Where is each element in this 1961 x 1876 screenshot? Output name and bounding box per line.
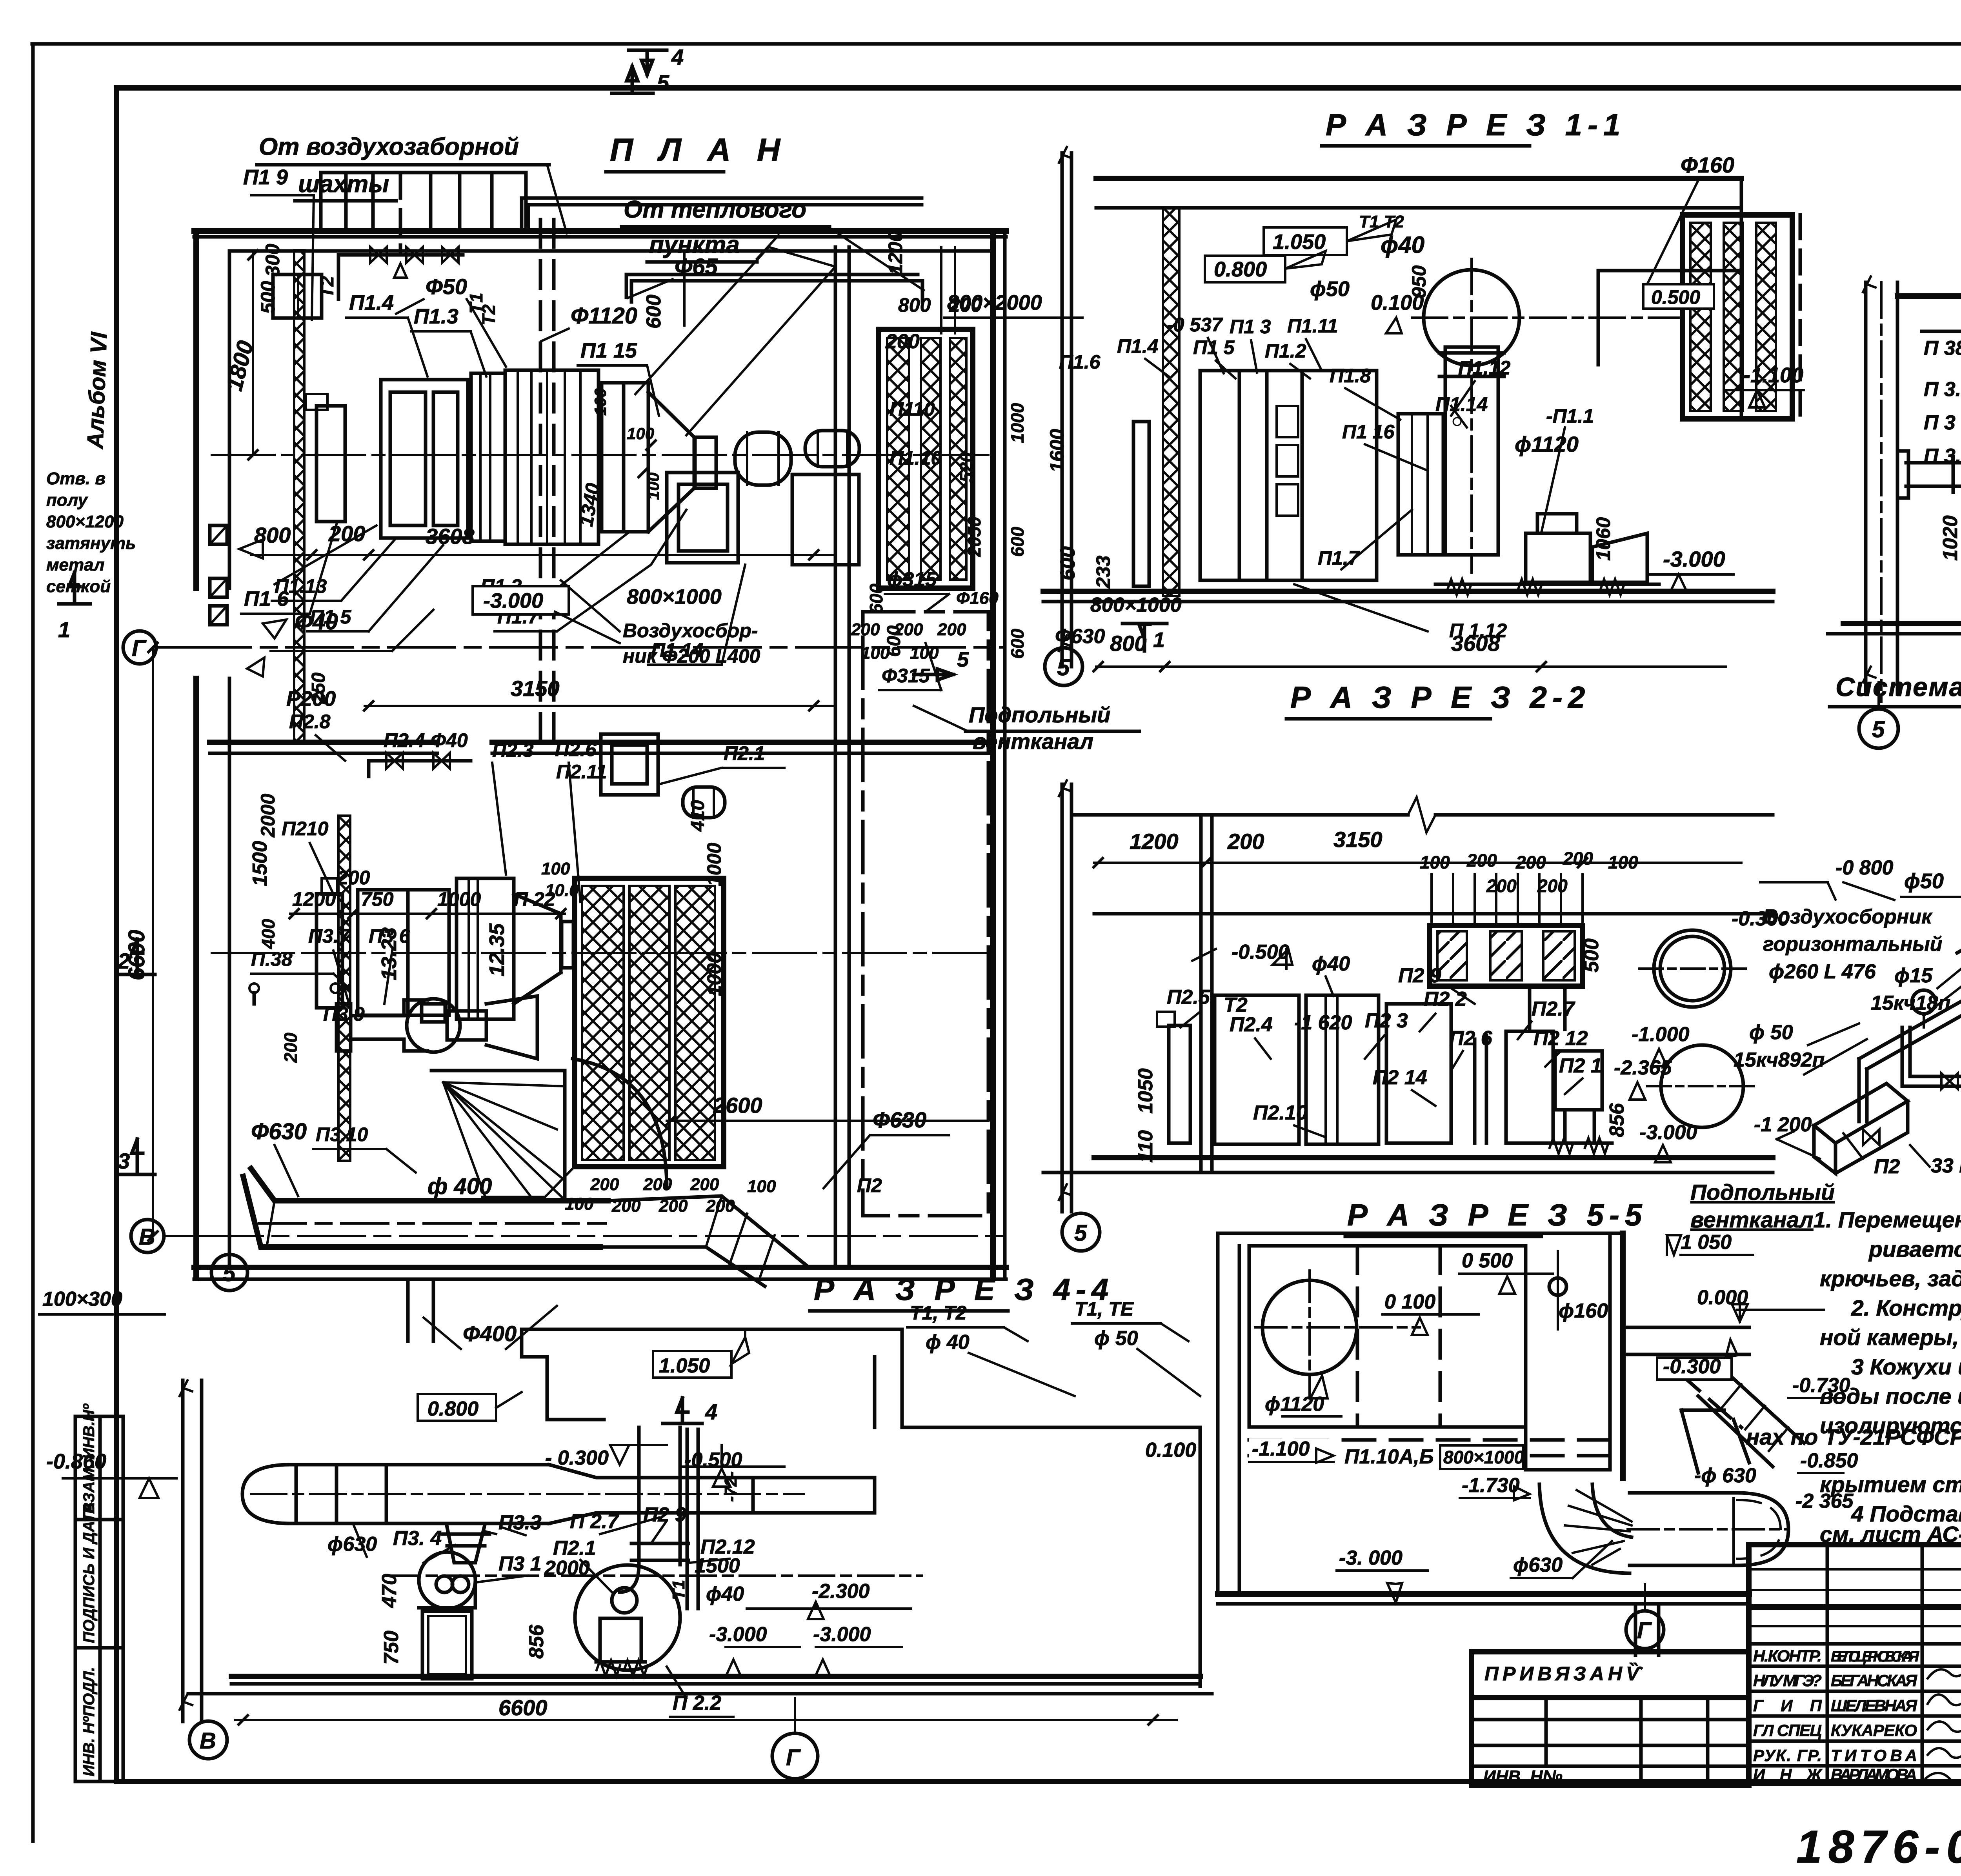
svg-text:5: 5	[957, 648, 969, 671]
svg-text:400: 400	[258, 919, 278, 949]
svg-text:15кч892п: 15кч892п	[1734, 1049, 1825, 1071]
svg-text:ШЕЛЕВНАЯ: ШЕЛЕВНАЯ	[1831, 1696, 1917, 1715]
svg-text:ТИТОВА: ТИТОВА	[1831, 1746, 1917, 1765]
section cut 5 small arrow right	[914, 669, 953, 680]
centerline	[384, 1574, 922, 1577]
intake shaft above plan	[319, 173, 323, 231]
node В (section 4-4)	[189, 1721, 227, 1759]
svg-text:Г: Г	[132, 636, 147, 661]
svg-text:П3 6: П3 6	[369, 925, 411, 947]
svg-text:Подпольный: Подпольный	[1690, 1180, 1835, 1205]
svg-text:-3.000: -3.000	[483, 589, 543, 613]
svg-text:ГИП: ГИП	[1753, 1696, 1822, 1715]
section cut 1 (left)	[59, 573, 90, 604]
svg-text:П1.3: П1.3	[414, 305, 458, 328]
svg-text:233: 233	[1092, 555, 1114, 589]
svg-text:воды после шумоглушителей в: воды после шумоглушителей в пределах вен…	[1820, 1384, 1961, 1409]
fan unit	[1386, 1004, 1451, 1143]
svg-text:П 3.9: П 3.9	[1924, 378, 1961, 401]
fan scroll box	[792, 474, 859, 565]
node 5 (section 3-3)	[1859, 709, 1898, 748]
signature rows	[1753, 1647, 1961, 1784]
svg-text:600: 600	[642, 294, 665, 329]
outer border left	[31, 44, 35, 1841]
inner wall	[1201, 815, 1212, 1172]
svg-text:От воздухозаборной: От воздухозаборной	[259, 133, 519, 160]
svg-text:100: 100	[565, 1194, 594, 1214]
section arrow 1	[1122, 624, 1167, 651]
bottom dims	[1096, 665, 1726, 668]
svg-text:-1 200: -1 200	[1754, 1113, 1812, 1136]
box 2	[1306, 995, 1379, 1144]
svg-text:Г: Г	[786, 1745, 801, 1771]
svg-text:200: 200	[1563, 848, 1593, 869]
svg-text:1000: 1000	[1007, 403, 1028, 443]
svg-text:вентканал1. Перемещение обо: вентканал1. Перемещение оборудования в в…	[1690, 1207, 1961, 1232]
node Г (section 4-4)	[772, 1733, 818, 1779]
svg-text:-0 800: -0 800	[1835, 856, 1894, 879]
svg-text:-1.100: -1.100	[1252, 1438, 1310, 1460]
vent channel dashed	[863, 612, 988, 1216]
centerline upper equipment	[212, 454, 988, 456]
labels	[1924, 256, 1961, 681]
labels	[1657, 1358, 1732, 1380]
svg-text:100: 100	[1608, 852, 1638, 873]
svg-text:П3 9: П3 9	[323, 1003, 365, 1025]
svg-text:ривается переносной лебедкой: ривается переносной лебедкой с блоками п…	[1868, 1237, 1961, 1262]
svg-text:-3.000: -3.000	[813, 1623, 871, 1646]
svg-text:2600: 2600	[713, 1093, 762, 1118]
big header cell rules	[1749, 1604, 1961, 1610]
pedestal	[422, 1611, 472, 1679]
svg-text:нах по ТУ-21РСФСР 80-77 δ=40: нах по ТУ-21РСФСР 80-77 δ=40мм с последу…	[1746, 1425, 1961, 1450]
svg-text:300: 300	[262, 244, 284, 276]
svg-text:П2.1: П2.1	[553, 1537, 596, 1560]
svg-text:П210: П210	[282, 818, 329, 840]
svg-text:Т1, ТЕ: Т1, ТЕ	[1075, 1298, 1134, 1320]
svg-text:ϕ15: ϕ15	[1894, 964, 1933, 987]
wall: plan right	[990, 236, 996, 1278]
leader lines	[1843, 1078, 1961, 1167]
top boundary	[1218, 1232, 1623, 1235]
main diagonal pipe	[1859, 768, 1961, 1069]
svg-text:950: 950	[1408, 265, 1430, 298]
svg-text:200: 200	[337, 867, 370, 889]
valve row T1 T2 (upper)	[338, 255, 463, 299]
left slim unit	[1133, 422, 1149, 586]
svg-text:ϕ160: ϕ160	[1559, 1300, 1608, 1322]
stair quarter arc duct	[573, 1059, 667, 1188]
svg-text:П2: П2	[857, 1174, 882, 1196]
svg-text:П3. 4: П3. 4	[393, 1527, 442, 1550]
svg-text:600: 600	[1007, 527, 1028, 557]
svg-text:33 КЧ-3-75: 33 КЧ-3-75	[1931, 1154, 1961, 1177]
dim bracket 500 300	[273, 274, 322, 318]
svg-text:-3. 000: -3. 000	[1339, 1547, 1403, 1569]
svg-text:1 050: 1 050	[1681, 1231, 1732, 1254]
svg-text:1.050: 1.050	[659, 1354, 710, 1377]
svg-text:П1.12: П1.12	[1458, 357, 1510, 379]
inclined duct top right	[1698, 1370, 1804, 1467]
svg-text:5: 5	[657, 70, 669, 95]
silencer block 3	[505, 370, 598, 544]
duct below floor	[1635, 1604, 1659, 1655]
svg-text:горизонтальный: горизонтальный	[1763, 933, 1942, 956]
air handler big box	[1200, 371, 1302, 580]
upper silencer П1.10	[879, 329, 973, 588]
heater П2.9 hatched	[1430, 925, 1583, 986]
svg-text:ϕ1120: ϕ1120	[1265, 1393, 1324, 1416]
svg-text:2. Конструкцию воздухозабор: 2. Конструкцию воздухозаборной шахты, Во…	[1851, 1296, 1961, 1321]
svg-text:200: 200	[1486, 876, 1517, 896]
svg-text:1: 1	[58, 617, 70, 642]
svg-text:НЛУ МГЭ?: НЛУ МГЭ?	[1753, 1671, 1822, 1690]
svg-text:шахты: шахты	[298, 171, 389, 198]
svg-text:БЕЛОЦЕРКОВСКАЯ: БЕЛОЦЕРКОВСКАЯ	[1831, 1649, 1919, 1665]
svg-text:100: 100	[627, 424, 654, 443]
svg-text:-П1.1: -П1.1	[1546, 405, 1594, 427]
motor and base	[1526, 533, 1590, 582]
svg-text:затянуть: затянуть	[46, 534, 136, 553]
svg-text:-1 620: -1 620	[1294, 1011, 1352, 1034]
svg-text:200: 200	[328, 521, 365, 546]
svg-text:3150: 3150	[511, 676, 560, 701]
svg-text:Т2: Т2	[317, 276, 338, 298]
svg-text:П1 5: П1 5	[1193, 336, 1235, 358]
svg-text:П1.4: П1.4	[1117, 335, 1158, 357]
svg-text:6600: 6600	[124, 930, 149, 980]
dim 6600 vertical	[152, 647, 154, 1236]
svg-text:полу: полу	[46, 491, 89, 510]
svg-text:ϕ630: ϕ630	[1513, 1554, 1563, 1576]
duct below heater	[1530, 986, 1565, 1029]
upper equipment row: panel П1.6	[317, 406, 345, 522]
svg-text:800: 800	[254, 523, 291, 547]
svg-text:-3.000: -3.000	[1639, 1121, 1697, 1144]
duct to right part	[753, 1478, 875, 1513]
svg-text:12.35: 12.35	[485, 923, 509, 976]
svg-text:856: 856	[525, 1624, 548, 1659]
svg-text:600: 600	[1007, 629, 1028, 659]
wall: divider between P1 and P2 rooms	[210, 740, 437, 745]
svg-text:ник Ф200 L400: ник Ф200 L400	[623, 645, 760, 667]
svg-text:500: 500	[1580, 938, 1603, 973]
svg-text:П3.7: П3.7	[308, 925, 351, 947]
opening note at left	[46, 469, 136, 596]
svg-text:ϕ 40: ϕ 40	[926, 1331, 970, 1354]
svg-text:В: В	[200, 1728, 216, 1754]
svg-text:800×2000: 800×2000	[947, 291, 1042, 314]
vertical discharge duct	[1445, 347, 1498, 555]
svg-text:200: 200	[280, 1033, 301, 1063]
svg-text:200: 200	[1515, 852, 1546, 873]
svg-text:П 38: П 38	[1924, 337, 1961, 360]
vertical duct П2.7	[639, 1427, 680, 1565]
svg-text:От теплового: От теплового	[624, 196, 806, 223]
node 5 (between sections 1-1 / 2-2)	[1045, 648, 1082, 685]
svg-text:600: 600	[1057, 546, 1079, 580]
svg-text:200: 200	[1227, 829, 1264, 854]
svg-text:100: 100	[541, 859, 570, 878]
piping detail center	[1957, 937, 1961, 963]
elbow quarter with radial lines	[1539, 1484, 1630, 1573]
air collector label block	[1734, 856, 1961, 1178]
fan П3.1 scroll	[419, 1552, 475, 1609]
svg-text:800×1000: 800×1000	[1443, 1447, 1524, 1467]
svg-text:-1.000: -1.000	[1632, 1023, 1690, 1046]
svg-text:П2 3: П2 3	[1365, 1009, 1408, 1032]
svg-text:100: 100	[591, 388, 609, 416]
flex connector П1.14 (oval)	[735, 432, 791, 485]
svg-text:П2.4: П2.4	[384, 729, 425, 751]
svg-text:ϕ260 L 476: ϕ260 L 476	[1769, 960, 1876, 983]
svg-text:750: 750	[361, 888, 394, 910]
svg-text:1200: 1200	[884, 231, 906, 274]
svg-text:П2.10: П2.10	[1253, 1102, 1308, 1124]
svg-text:600: 600	[866, 584, 886, 614]
node 5 (below section 2-2)	[1062, 1213, 1100, 1251]
wall hatched strip	[1163, 208, 1179, 596]
svg-text:750: 750	[380, 1631, 403, 1665]
svg-text:1876-09: 1876-09	[1796, 1821, 1961, 1873]
right shaft walls	[834, 247, 837, 1267]
bottom ducts Ф630	[251, 1169, 608, 1201]
floor	[1843, 621, 1961, 626]
svg-text:1020: 1020	[1939, 515, 1961, 561]
svg-text:1600: 1600	[1046, 429, 1068, 473]
svg-text:800: 800	[898, 294, 931, 316]
column axis	[1062, 784, 1071, 1212]
svg-text:ϕ1120: ϕ1120	[1515, 432, 1579, 456]
svg-text:1000: 1000	[437, 888, 481, 910]
left signature table verticals	[1826, 1545, 1829, 1783]
svg-text:П2 1: П2 1	[1559, 1054, 1602, 1077]
transition cone	[648, 392, 694, 532]
ceiling of room	[1094, 912, 1773, 916]
svg-text:Р А З Р Е З 1-1: Р А З Р Е З 1-1	[1326, 107, 1626, 142]
right zone: 0.000 floor	[1623, 1326, 1749, 1329]
svg-text:П2 2: П2 2	[1424, 988, 1467, 1011]
svg-text:П1.10А,Б: П1.10А,Б	[1344, 1445, 1433, 1468]
svg-text:250: 250	[308, 673, 329, 704]
right ledge	[1598, 271, 1741, 365]
svg-text:1200: 1200	[1130, 829, 1179, 854]
node 5 (plan bottom-left)	[211, 1254, 247, 1291]
svg-text:Подпольный: Подпольный	[969, 702, 1110, 727]
ceiling slab	[1096, 176, 1741, 181]
svg-text:ϕ 50: ϕ 50	[1094, 1327, 1138, 1350]
pipe Ф65 double line	[522, 198, 922, 231]
ceiling	[1897, 293, 1961, 299]
svg-text:1050: 1050	[1134, 1068, 1157, 1114]
svg-text:6600: 6600	[498, 1695, 548, 1720]
section cut 4 bottom	[663, 1398, 702, 1423]
wall: plan bottom	[194, 1265, 1006, 1270]
svg-text:П1 3: П1 3	[1230, 316, 1271, 338]
upper wall outline stepped	[522, 1329, 902, 1427]
svg-text:600: 600	[884, 625, 904, 657]
svg-text:Р А З Р Е З 4-4: Р А З Р Е З 4-4	[814, 1272, 1114, 1307]
svg-text:3608: 3608	[1451, 631, 1500, 656]
svg-text:520: 520	[956, 452, 977, 482]
svg-text:100: 100	[1420, 852, 1450, 873]
svg-text:200: 200	[1466, 850, 1497, 871]
svg-text:410: 410	[688, 800, 708, 832]
block 4	[602, 383, 648, 532]
svg-text:0.800: 0.800	[1214, 258, 1267, 281]
svg-text:Н.КОНТР.: Н.КОНТР.	[1753, 1647, 1822, 1665]
svg-text:П1 15: П1 15	[580, 339, 637, 362]
П2 isometric box	[1814, 1083, 1908, 1173]
svg-text:3150: 3150	[1333, 827, 1383, 852]
svg-text:П.38: П.38	[251, 948, 293, 970]
node Г (section 5-5)	[1626, 1611, 1664, 1649]
svg-text:1200: 1200	[292, 888, 336, 910]
svg-text:Т1: Т1	[669, 1580, 688, 1600]
fan plenum box	[667, 473, 738, 563]
hatched partition wall (upper room)	[294, 250, 304, 742]
motor capsule P1.1	[805, 431, 859, 467]
svg-text:ПРИВЯЗАНѶ: ПРИВЯЗАНѶ	[1484, 1663, 1645, 1685]
svg-text:П2.5: П2.5	[1167, 986, 1210, 1009]
svg-text:-ϕ 630: -ϕ 630	[1694, 1464, 1756, 1487]
left duct with flanges	[1906, 463, 1961, 486]
svg-text:ф 400: ф 400	[427, 1174, 492, 1199]
labels	[1134, 907, 1790, 1163]
svg-text:Отв. в: Отв. в	[46, 469, 106, 488]
svg-text:ПОДПИСЬ И ДАТА: ПОДПИСЬ И ДАТА	[80, 1502, 98, 1643]
floor	[1218, 1591, 1749, 1597]
svg-text:3 Кожухи шумоглушителей: 3 Кожухи шумоглушителей систем П1 и П2 в…	[1851, 1354, 1961, 1380]
svg-text:Ф160: Ф160	[956, 589, 999, 608]
stair	[431, 1071, 565, 1200]
signatures squiggles	[1928, 1667, 1961, 1678]
svg-text:800×1000: 800×1000	[627, 585, 722, 609]
svg-text:П 3.7: П 3.7	[1924, 445, 1961, 467]
svg-text:ИНВ. Н№: ИНВ. Н№	[1483, 1767, 1563, 1786]
svg-text:ϕ40: ϕ40	[1312, 953, 1350, 975]
svg-text:100: 100	[644, 473, 662, 500]
svg-text:200: 200	[690, 1175, 719, 1194]
riser drop at left	[1859, 1059, 1867, 1122]
svg-text:200: 200	[590, 1175, 619, 1194]
wall: plan top	[194, 228, 1006, 234]
svg-text:Т1 Т2: Т1 Т2	[1359, 212, 1404, 231]
level and dim labels	[1264, 227, 1347, 255]
svg-text:5: 5	[1872, 717, 1885, 742]
svg-text:-3.000: -3.000	[1663, 547, 1725, 571]
svg-text:- 0.300: - 0.300	[545, 1447, 609, 1469]
svg-text:1500: 1500	[249, 841, 271, 886]
labels	[327, 1351, 1196, 1714]
svg-text:КУКАРЕКО: КУКАРЕКО	[1831, 1721, 1917, 1740]
room box	[1249, 1246, 1526, 1427]
svg-text:П1 16: П1 16	[1342, 421, 1395, 443]
svg-text:3608: 3608	[426, 524, 475, 549]
duct ring П2	[1654, 930, 1731, 1007]
right wall	[1740, 178, 1743, 416]
svg-text:2050: 2050	[964, 516, 984, 557]
transition funnel	[1681, 1410, 1749, 1473]
svg-text:крючьев, заделянных в п: крючьев, заделянных в потолок	[1820, 1266, 1961, 1291]
svg-text:П1.4: П1.4	[349, 291, 394, 314]
svg-text:-1.730: -1.730	[1462, 1474, 1520, 1497]
svg-text:ϕ50: ϕ50	[1904, 869, 1944, 893]
svg-text:П2.6: П2.6	[555, 738, 597, 760]
svg-text:200: 200	[851, 620, 880, 639]
svg-text:200: 200	[885, 330, 920, 353]
П2.1 plenum square	[601, 734, 658, 795]
section cut 4 (top)	[629, 50, 667, 75]
svg-text:Воздухосбор-: Воздухосбор-	[623, 620, 758, 642]
svg-text:ϕ50: ϕ50	[1310, 277, 1350, 301]
svg-text:Г: Г	[1637, 1618, 1652, 1643]
svg-text:110: 110	[1134, 1130, 1157, 1163]
svg-text:5: 5	[1074, 1220, 1087, 1246]
svg-text:П3 1: П3 1	[498, 1552, 542, 1575]
svg-text:ϕ40: ϕ40	[706, 1583, 744, 1605]
svg-text:1060: 1060	[1592, 517, 1614, 561]
node Г (plan)	[123, 631, 156, 664]
left wall	[1218, 1233, 1239, 1594]
svg-text:856: 856	[1606, 1103, 1628, 1137]
fan П1.12 scroll circle	[1424, 270, 1519, 365]
ceiling top line with break	[1071, 813, 1773, 817]
svg-text:П2 14: П2 14	[1373, 1066, 1427, 1089]
svg-text:РУК. ГР.: РУК. ГР.	[1753, 1746, 1822, 1765]
floor	[231, 1674, 1200, 1679]
fan Ф1120 circle	[1262, 1280, 1357, 1374]
svg-text:П1.2: П1.2	[1265, 340, 1306, 362]
svg-text:П 3 6: П 3 6	[1924, 411, 1961, 434]
hatched partition wall (lower room)	[338, 816, 350, 1161]
box 1	[1215, 995, 1299, 1144]
floor	[1043, 589, 1773, 594]
svg-text:Ф630: Ф630	[251, 1119, 307, 1144]
svg-text:П1.10: П1.10	[890, 447, 942, 469]
thin pipes T1 T2	[686, 1429, 689, 1609]
big horizontal duct capsule	[242, 1465, 549, 1523]
svg-text:П2.7: П2.7	[1532, 998, 1575, 1020]
svg-text:100: 100	[910, 644, 939, 663]
section cut 5 (top)	[612, 67, 653, 93]
svg-text:-0.500: -0.500	[684, 1449, 742, 1471]
lower silencer П2	[575, 878, 724, 1167]
svg-text:Ф160: Ф160	[1681, 153, 1734, 177]
svg-text:4: 4	[671, 45, 684, 69]
svg-text:ϕ630: ϕ630	[327, 1533, 377, 1556]
svg-text:Воздухосборник: Воздухосборник	[1763, 905, 1933, 928]
svg-text:П110: П110	[890, 398, 935, 420]
right duct shaft	[1526, 1233, 1610, 1470]
svg-text:-0.500: -0.500	[1232, 941, 1290, 963]
svg-text:800: 800	[1110, 631, 1146, 656]
svg-text:П2 12: П2 12	[1534, 1027, 1588, 1050]
svg-text:П2.4: П2.4	[1230, 1013, 1273, 1036]
centerline lower	[212, 952, 988, 954]
svg-text:-1.100: -1.100	[1743, 364, 1803, 387]
svg-text:П2.12: П2.12	[700, 1536, 755, 1558]
svg-text:Ф40: Ф40	[431, 729, 468, 751]
node В (plan)	[131, 1220, 164, 1252]
svg-text:ИНВ. НºПОДЛ.: ИНВ. НºПОДЛ.	[80, 1667, 98, 1776]
svg-text:-0.300: -0.300	[1663, 1355, 1721, 1378]
motor oval	[683, 787, 725, 818]
svg-text:крытием стеклопластиком руло: крытием стеклопластиком рулонным РСТ по …	[1820, 1472, 1961, 1497]
svg-text:3: 3	[118, 1149, 130, 1173]
svg-text:П2.3: П2.3	[492, 739, 534, 761]
svg-text:200: 200	[1537, 876, 1568, 896]
